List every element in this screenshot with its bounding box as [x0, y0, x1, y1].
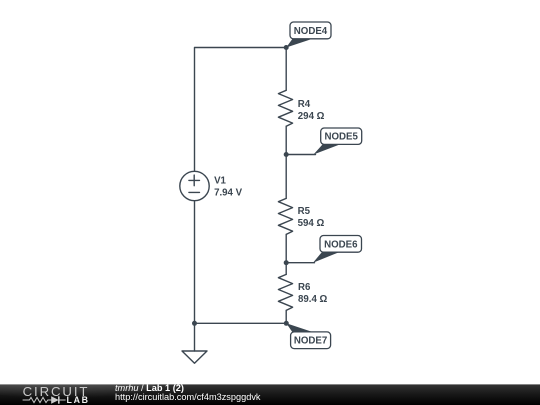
svg-text:NODE7: NODE7	[294, 336, 327, 347]
flag tail node4	[286, 39, 312, 48]
svg-text:NODE5: NODE5	[325, 132, 359, 143]
resistor R6	[278, 274, 292, 310]
junction dot ground	[192, 321, 197, 326]
svg-text:NODE4: NODE4	[294, 26, 328, 37]
wire node5 stub	[286, 154, 315, 156]
svg-text:594 Ω: 594 Ω	[298, 218, 325, 229]
node flag NODE7 box	[291, 332, 331, 349]
junction dot node6	[284, 260, 289, 265]
footer bar	[0, 384, 540, 405]
svg-text:7.94 V: 7.94 V	[214, 188, 243, 199]
footer gloss	[0, 370, 155, 398]
svg-text:R4: R4	[298, 99, 311, 110]
ground triangle	[182, 351, 207, 363]
resistor R5	[278, 198, 292, 234]
svg-text:89.4 Ω: 89.4 Ω	[298, 294, 328, 305]
junction dot node4	[284, 45, 289, 50]
node flag NODE6 box	[320, 236, 362, 253]
wire left vertical below source	[194, 201, 196, 324]
svg-text:R6: R6	[298, 282, 311, 293]
svg-text:http://circuitlab.com/cf4m3zsp: http://circuitlab.com/cf4m3zspggdvk	[115, 392, 261, 402]
junction dot node7	[284, 321, 289, 326]
junction dot node5	[284, 152, 289, 157]
svg-text:NODE6: NODE6	[324, 239, 358, 250]
ground wire stub	[194, 323, 196, 351]
wire right rail top	[285, 48, 287, 91]
wire node6 stub	[286, 262, 314, 264]
svg-text:294 Ω: 294 Ω	[298, 111, 325, 122]
resistor R4	[278, 90, 292, 126]
wire top horizontal	[195, 48, 287, 172]
svg-text:LAB: LAB	[67, 395, 90, 405]
flag tail node5	[314, 144, 341, 154]
wire node5 to R5	[285, 155, 287, 199]
logo schematic line	[23, 396, 66, 403]
V1 minus sign	[189, 191, 200, 193]
wire R4 to node5	[285, 126, 287, 154]
wire R6 to node7	[285, 310, 287, 323]
logo diode triangle	[51, 396, 59, 403]
flag tail node7	[286, 323, 312, 332]
voltage source V1 circle	[180, 171, 209, 200]
svg-text:V1: V1	[214, 176, 226, 187]
node flag NODE4 box	[290, 22, 331, 39]
wire R5 to node6	[285, 234, 287, 262]
wire bottom horizontal	[195, 322, 287, 324]
svg-text:R5: R5	[298, 206, 311, 217]
flag tail node6	[313, 252, 339, 263]
wire node6 to R6	[285, 263, 287, 275]
V1 plus sign	[189, 175, 200, 186]
node flag NODE5 box	[321, 128, 362, 144]
